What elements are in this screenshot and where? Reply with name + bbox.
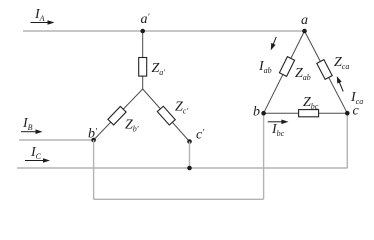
node c' (187, 139, 192, 144)
resistor Z_c' (157, 106, 175, 125)
resistor Z_ab (279, 57, 294, 77)
wire delta side b-c (264, 112, 348, 114)
svg-text:Za′: Za′ (152, 61, 166, 77)
wire b' drop (93, 140, 95, 199)
svg-text:Zbc: Zbc (303, 95, 319, 111)
wire phase C feeder (17, 167, 347, 169)
wire star branch to c' (143, 89, 190, 142)
svg-text:Ibc: Ibc (271, 122, 285, 138)
current arrow I_ab (271, 37, 277, 51)
resistor Z_ca (317, 60, 332, 80)
svg-text:Iab: Iab (258, 59, 272, 75)
wire riser to b (263, 113, 265, 199)
wire c' drop to phase C (189, 142, 191, 169)
resistor Z_b' (108, 106, 126, 125)
node c (345, 111, 350, 116)
svg-text:Ica: Ica (350, 90, 363, 106)
current arrow I_ca (337, 76, 343, 91)
wire star branch to b' (94, 89, 143, 140)
node a' (140, 29, 145, 34)
svg-text:b′: b′ (88, 127, 98, 142)
wire bottom return (94, 198, 264, 200)
current arrow I_C (25, 158, 50, 163)
svg-text:b: b (253, 105, 260, 120)
svg-text:Zca: Zca (334, 55, 349, 71)
svg-text:IA: IA (34, 7, 45, 23)
svg-text:Zc′: Zc′ (175, 100, 188, 116)
node b' (91, 138, 96, 143)
wire riser to c (346, 113, 348, 168)
wire delta side a-c (305, 31, 348, 113)
current arrow I_bc (268, 120, 289, 125)
node b (261, 111, 266, 116)
node a (302, 29, 307, 34)
svg-text:a: a (301, 13, 308, 28)
resistor Z_a' (139, 58, 147, 77)
svg-text:a′: a′ (141, 12, 151, 27)
wire phase A feeder (23, 30, 305, 32)
node junction c' on phase C (187, 166, 192, 171)
current arrow I_B (21, 129, 43, 134)
wire stem from a' to star point (142, 31, 144, 89)
svg-text:Zb′: Zb′ (125, 118, 139, 134)
svg-text:c′: c′ (196, 128, 205, 143)
svg-text:IB: IB (22, 116, 33, 132)
svg-text:Zab: Zab (295, 66, 311, 82)
resistor Z_bc (299, 110, 319, 117)
wire delta side a-b (264, 31, 305, 113)
wire phase B feeder (19, 139, 94, 141)
svg-text:IC: IC (30, 145, 42, 161)
current arrow I_A (31, 20, 55, 25)
